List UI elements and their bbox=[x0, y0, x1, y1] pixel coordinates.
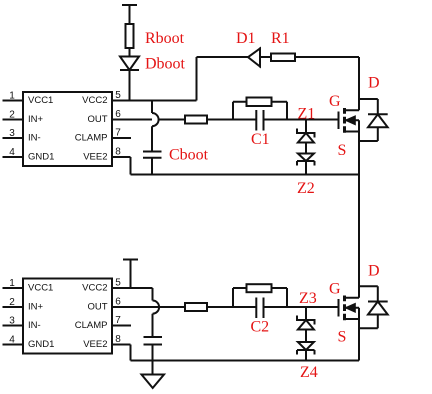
svg-text:VCC1: VCC1 bbox=[28, 283, 53, 294]
svg-text:2: 2 bbox=[9, 297, 15, 308]
svg-text:IN+: IN+ bbox=[28, 114, 44, 125]
svg-text:4: 4 bbox=[9, 335, 15, 346]
svg-text:Z2: Z2 bbox=[297, 180, 315, 197]
svg-text:C2: C2 bbox=[251, 319, 270, 336]
svg-text:6: 6 bbox=[115, 297, 121, 308]
svg-text:Z4: Z4 bbox=[300, 364, 318, 381]
svg-text:7: 7 bbox=[115, 315, 121, 326]
svg-text:CLAMP: CLAMP bbox=[75, 133, 108, 144]
svg-text:Cboot: Cboot bbox=[169, 147, 209, 164]
svg-text:4: 4 bbox=[9, 147, 15, 158]
svg-text:5: 5 bbox=[115, 90, 121, 101]
svg-text:3: 3 bbox=[9, 316, 15, 327]
svg-text:IN+: IN+ bbox=[28, 302, 44, 313]
svg-text:5: 5 bbox=[115, 278, 121, 289]
svg-text:7: 7 bbox=[115, 128, 121, 139]
svg-text:8: 8 bbox=[115, 147, 121, 158]
svg-text:VEE2: VEE2 bbox=[83, 152, 107, 163]
svg-text:VCC2: VCC2 bbox=[82, 283, 107, 294]
svg-text:OUT: OUT bbox=[87, 302, 107, 313]
svg-text:VEE2: VEE2 bbox=[83, 339, 107, 350]
svg-text:D: D bbox=[368, 263, 380, 280]
svg-text:Z3: Z3 bbox=[299, 290, 317, 307]
svg-text:S: S bbox=[338, 329, 347, 346]
svg-text:1: 1 bbox=[9, 278, 15, 289]
svg-text:IN-: IN- bbox=[28, 320, 41, 331]
svg-text:CLAMP: CLAMP bbox=[75, 320, 108, 331]
svg-text:GND1: GND1 bbox=[28, 339, 54, 350]
svg-text:D1: D1 bbox=[236, 30, 256, 47]
svg-text:G: G bbox=[329, 93, 341, 110]
svg-text:6: 6 bbox=[115, 109, 121, 120]
svg-text:GND1: GND1 bbox=[28, 152, 54, 163]
svg-text:VCC2: VCC2 bbox=[82, 95, 107, 106]
svg-text:IN-: IN- bbox=[28, 133, 41, 144]
svg-text:VCC1: VCC1 bbox=[28, 95, 53, 106]
svg-text:Rboot: Rboot bbox=[145, 30, 185, 47]
svg-text:1: 1 bbox=[9, 91, 15, 102]
svg-text:C1: C1 bbox=[251, 131, 270, 148]
svg-text:S: S bbox=[338, 142, 347, 159]
svg-text:Dboot: Dboot bbox=[145, 56, 186, 73]
svg-text:OUT: OUT bbox=[87, 114, 107, 125]
svg-text:Z1: Z1 bbox=[298, 106, 316, 123]
svg-text:8: 8 bbox=[115, 334, 121, 345]
svg-text:2: 2 bbox=[9, 110, 15, 121]
svg-text:G: G bbox=[329, 281, 341, 298]
svg-text:R1: R1 bbox=[271, 30, 290, 47]
svg-text:D: D bbox=[368, 75, 380, 92]
svg-text:3: 3 bbox=[9, 128, 15, 139]
